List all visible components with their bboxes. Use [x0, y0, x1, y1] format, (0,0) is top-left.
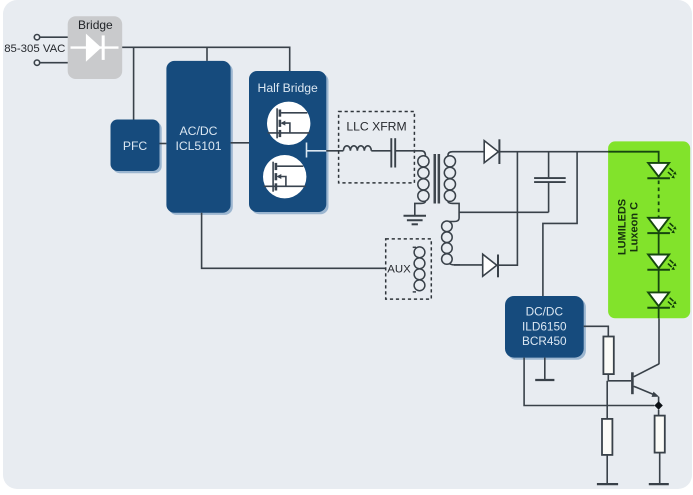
wire: center tap rail	[459, 211, 548, 213]
ground: DC/DC	[535, 379, 554, 381]
transistor Q2 low-side mosfet circle	[263, 155, 306, 198]
wire: half bridge to LLC	[326, 150, 343, 152]
wire: output positive rail	[499, 151, 608, 153]
wire: AC/DC to AUX	[202, 213, 386, 269]
wire: R1 to base node	[608, 374, 631, 381]
svg-text:BCR450: BCR450	[522, 334, 567, 348]
LED D6	[647, 292, 676, 308]
wire	[371, 150, 391, 152]
ground: LLC primary	[404, 216, 427, 225]
diode D1 top rectifier	[484, 139, 499, 164]
node: AC input terminal 2	[34, 60, 39, 65]
svg-text:85-305 VAC: 85-305 VAC	[4, 43, 65, 55]
wire: PFC to AC/DC	[160, 143, 167, 145]
capacitor C1 resonant	[391, 138, 395, 167]
LUMILEDS Luxeon C green block	[608, 141, 690, 318]
wire: primary bottom to ground	[415, 201, 426, 216]
transformer T1 primary winding	[418, 156, 429, 202]
resistor R1 base feed	[603, 337, 613, 375]
AUX winding dashed box	[386, 239, 432, 299]
svg-text:AC/DC: AC/DC	[180, 124, 218, 138]
wire: half-bridge midpoint (white)	[307, 143, 327, 158]
wire: lower winding to diode D2	[454, 264, 483, 266]
inductor L2 aux winding	[413, 247, 425, 292]
wire: DC/DC ground stub	[544, 358, 546, 380]
wire: cap to transformer primary	[395, 151, 425, 156]
resistor R3 emitter sense	[655, 416, 665, 453]
node: AC input terminal 1	[34, 35, 39, 40]
Half Bridge block	[249, 71, 329, 214]
LED D4	[647, 218, 676, 234]
diode D2 bottom rectifier	[483, 254, 498, 277]
wire: dashed LED continuation	[658, 181, 660, 218]
LED D3	[647, 163, 676, 179]
ground: R3	[649, 483, 669, 485]
ground: R2	[597, 483, 618, 485]
svg-text:AUX: AUX	[387, 263, 411, 275]
svg-text:ILD6150: ILD6150	[522, 319, 567, 333]
svg-text:ICL5101: ICL5101	[175, 139, 221, 153]
wire: R2 to ground	[606, 455, 608, 484]
wire: secondary center tap	[448, 201, 459, 218]
svg-text:DC/DC: DC/DC	[526, 305, 564, 319]
transistor Q1 high-side mosfet circle	[267, 102, 310, 145]
svg-text:Luxeon C: Luxeon C	[628, 202, 640, 252]
wire: DC/DC output to R1	[584, 326, 609, 336]
transformer T1 core	[434, 154, 441, 204]
wire: current sense line to DC/DC	[524, 358, 654, 406]
svg-text:LUMILEDS: LUMILEDS	[617, 199, 629, 255]
wire: terminal2 to bridge	[40, 62, 68, 64]
PFC block	[111, 120, 162, 174]
transformer T1 secondary lower winding	[442, 218, 460, 265]
wire: R3 to ground	[659, 453, 661, 485]
wire: bridge output main rail	[122, 47, 290, 71]
svg-text:Bridge: Bridge	[78, 18, 113, 32]
LLC XFRM dashed box	[339, 112, 415, 183]
svg-text:Half Bridge: Half Bridge	[258, 81, 319, 95]
node: emitter junction dot	[654, 401, 662, 409]
wire: secondary top lead to diode D1	[448, 152, 484, 156]
wire: drop to PFC	[133, 47, 135, 119]
inductor L1 resonant	[343, 146, 371, 151]
LED D5	[647, 255, 676, 271]
bridge rectifier block	[68, 16, 123, 79]
svg-text:PFC: PFC	[123, 139, 148, 153]
wire	[658, 233, 660, 254]
resistor R2 base divider	[602, 419, 612, 455]
diode symbol inside bridge (white)	[71, 34, 119, 62]
wire: positive rail to DC/DC input	[543, 152, 577, 296]
wire: base node down to R2	[606, 381, 608, 419]
wire: drop to AC/DC	[206, 47, 208, 61]
svg-text:LLC XFRM: LLC XFRM	[346, 120, 406, 134]
wire: LED string exit	[658, 308, 660, 319]
AC/DC ICL5101 block U1	[166, 61, 232, 215]
wire: terminal1 to bridge	[40, 36, 68, 38]
capacitor C2 output	[534, 152, 566, 213]
wire: collector up to LED string	[658, 318, 660, 364]
wire: emitter junction to R3	[658, 410, 660, 416]
DC/DC ILD6150 BCR450 block U2	[505, 296, 586, 360]
transformer T1 secondary upper winding	[444, 156, 455, 202]
transistor Q3 NPN	[632, 364, 659, 402]
wire: AC/DC to Half Bridge	[231, 142, 249, 144]
wire	[658, 270, 660, 293]
wire: LED feed inside module	[608, 152, 659, 163]
wire: D2 cathode up to positive rail	[498, 152, 517, 266]
